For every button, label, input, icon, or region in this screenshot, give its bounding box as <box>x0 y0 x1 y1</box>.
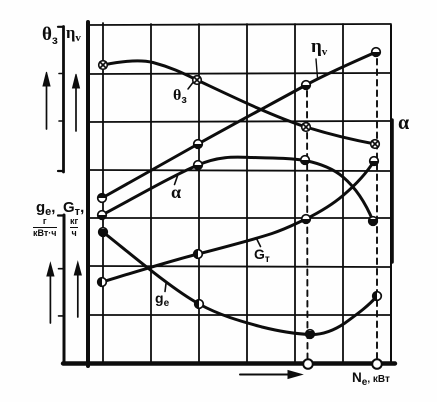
label curve alpha <box>171 182 181 203</box>
marker theta3 point 3 <box>302 123 311 132</box>
marker theta3 point 2 <box>193 76 202 85</box>
marker ge point 1 <box>99 228 108 237</box>
right alpha axis thick bar <box>390 120 394 262</box>
label alpha right axis <box>398 112 409 135</box>
pointer line theta3 label <box>188 81 195 90</box>
curve ge <box>103 232 377 335</box>
arrow up ge <box>47 263 54 323</box>
label curve theta3 <box>173 87 187 106</box>
markers theta3 (circle with X) <box>99 61 380 149</box>
marker alpha point 4 <box>369 217 378 226</box>
markers GT (half filled) <box>98 157 379 287</box>
curve alpha <box>102 157 373 221</box>
marker GT point 3 <box>302 215 311 224</box>
marker alpha point 2 <box>194 161 203 170</box>
right boundary line <box>390 25 392 363</box>
label theta3 axis <box>42 24 58 47</box>
open circle on axis 2 <box>372 359 382 369</box>
main left axis <box>86 22 90 366</box>
marker ge point 3 <box>306 330 315 339</box>
bottom axis <box>63 361 395 365</box>
arrow up GT <box>74 262 81 317</box>
label ge with units <box>36 200 55 218</box>
marker eta_v point 3 <box>302 81 311 90</box>
marker ge point 2 <box>195 300 204 309</box>
grid horizontal lines <box>88 24 391 315</box>
curve theta3 <box>103 61 375 144</box>
left upper axis bar (theta/eta) <box>58 27 64 173</box>
marker GT point 2 <box>194 250 203 259</box>
label Ne kVt <box>352 370 390 388</box>
grid vertical lines <box>103 23 343 363</box>
label curve GT <box>254 246 270 265</box>
arrow up theta3 <box>43 72 50 129</box>
marker alpha point 3 <box>301 156 310 165</box>
curve eta_v <box>102 52 376 198</box>
markers eta_v (half filled) <box>98 48 381 203</box>
arrow up eta <box>73 74 80 131</box>
arrow bottom Ne <box>240 371 302 379</box>
marker theta3 point 1 <box>99 61 108 70</box>
pointer line eta label <box>316 59 318 78</box>
marker theta3 point 4 <box>371 140 380 149</box>
markers ge (mostly filled) <box>99 228 382 339</box>
curve GT <box>102 161 374 282</box>
marker eta_v point 1 <box>98 194 107 203</box>
label curve eta_v <box>311 36 327 58</box>
marker GT point 4 <box>370 157 379 166</box>
marker eta_v point 4 <box>372 48 381 57</box>
label eta_v axis <box>66 23 81 44</box>
pointer line alpha label <box>175 176 178 185</box>
markers alpha (half filled) <box>98 156 378 226</box>
marker ge point 4 <box>373 292 382 301</box>
pointer line GT label <box>257 239 261 247</box>
marker eta_v point 2 <box>194 140 203 149</box>
pointer line ge label <box>165 284 166 292</box>
dashed drop line 2 <box>376 59 378 358</box>
dashed drop line 1 <box>306 91 309 358</box>
label GT with units <box>63 200 84 218</box>
open circle on axis 1 <box>303 359 313 369</box>
label curve ge <box>155 290 169 309</box>
marker GT point 1 <box>98 278 107 287</box>
marker alpha point 1 <box>98 211 107 220</box>
left lower axis bar (ge/GT) <box>58 215 64 363</box>
